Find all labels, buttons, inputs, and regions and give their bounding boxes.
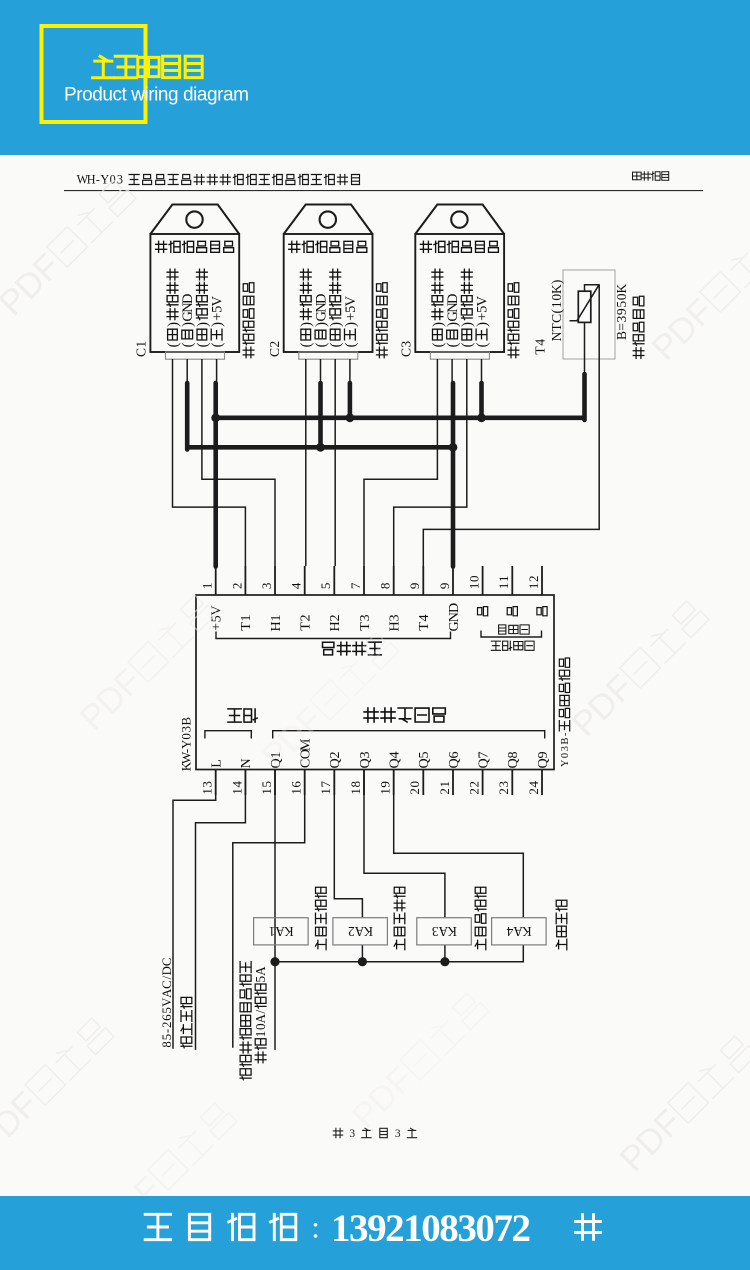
svg-text:1: 1 xyxy=(259,788,274,795)
designator T4 xyxy=(533,339,548,355)
svg-text:2: 2 xyxy=(297,614,313,621)
pin number 14 bottom xyxy=(229,781,244,795)
svg-text:3: 3 xyxy=(560,746,571,751)
junction +5V bus / C2 red xyxy=(346,413,355,422)
wire Q3(18) to KA3 xyxy=(364,770,445,918)
wire T4 lead to terminal 8 xyxy=(423,285,599,566)
svg-text:(: ( xyxy=(328,342,344,347)
terminal tick top 8 (col 7) xyxy=(393,566,395,595)
svg-text:H: H xyxy=(87,173,96,187)
wire Q2(17) to KA2 xyxy=(334,770,362,918)
svg-text:A: A xyxy=(253,1013,268,1023)
svg-text:(: ( xyxy=(210,342,226,347)
bracket 电源 (pins 13-14) xyxy=(205,731,251,739)
junction rail / KA2 xyxy=(358,957,367,966)
svg-text:Product wiring diagram: Product wiring diagram xyxy=(64,85,249,106)
svg-text:8: 8 xyxy=(505,751,521,758)
label 勿接线 (rotated 180) xyxy=(499,625,530,634)
wire Q4(19) to KA4 xyxy=(394,770,524,918)
svg-text:5: 5 xyxy=(318,583,333,590)
svg-text:2: 2 xyxy=(407,788,422,795)
net label 信号输入 (rotated 180) xyxy=(323,642,382,655)
svg-text:1: 1 xyxy=(133,341,148,348)
pin number 21 bottom xyxy=(437,781,452,795)
svg-text:): ) xyxy=(165,322,181,327)
GND bus wire xyxy=(187,445,453,450)
sensor C3 designator xyxy=(398,341,413,357)
svg-text:2: 2 xyxy=(467,788,482,795)
pin number 19 bottom xyxy=(378,781,393,795)
svg-text:2: 2 xyxy=(327,614,343,621)
svg-text:C: C xyxy=(133,348,148,357)
terminal tick bottom 15 xyxy=(274,770,276,796)
thermistor T4 diagonal xyxy=(570,284,600,321)
wire C3 black pin stub xyxy=(451,359,453,384)
terminal label Q5 xyxy=(416,751,432,768)
svg-text:): ) xyxy=(460,322,476,327)
terminal label T4 xyxy=(416,614,432,630)
svg-text:6: 6 xyxy=(446,751,462,758)
wire C3 yellow pin to H3 xyxy=(394,359,467,566)
sensor C2 side label 温湿度传感器 xyxy=(377,283,388,358)
svg-text:1: 1 xyxy=(269,924,276,939)
svg-text:3: 3 xyxy=(357,751,373,758)
sensor C1 side label 温湿度传感器 xyxy=(243,283,254,358)
svg-text:5: 5 xyxy=(160,1007,174,1013)
pin number 23 bottom xyxy=(496,781,511,795)
svg-text:1: 1 xyxy=(549,301,564,308)
terminal label Q7 xyxy=(475,751,491,768)
svg-text:D: D xyxy=(180,293,196,303)
relay KA3 function label 车间三湿度 xyxy=(475,887,486,950)
svg-text:1: 1 xyxy=(289,788,304,795)
terminal tick top 10 (col 10) xyxy=(482,566,484,595)
svg-text:1: 1 xyxy=(318,788,333,795)
wire L(13) to mains xyxy=(173,770,216,1049)
svg-text:2: 2 xyxy=(467,781,482,788)
terminal tick bottom 18 xyxy=(363,770,365,796)
terminal label 空 3 xyxy=(537,607,547,616)
thermistor T4 body xyxy=(578,291,591,322)
svg-text:(: ( xyxy=(299,342,315,347)
sensor C3 side label 温湿度传感器 xyxy=(508,283,519,358)
svg-text:(: ( xyxy=(180,342,196,347)
svg-text:3: 3 xyxy=(349,1128,355,1140)
terminal label Q4 xyxy=(386,751,402,768)
svg-text:H: H xyxy=(268,621,284,631)
sensor C3 pin label black GND xyxy=(445,293,461,347)
terminal tick bottom 19 xyxy=(393,770,395,796)
wire C3 black thick to GND terminal 9 xyxy=(451,383,456,567)
pin number 20 bottom xyxy=(407,781,422,795)
sensor C3 pin label red +5V xyxy=(474,295,490,347)
svg-text:(: ( xyxy=(474,342,490,347)
pin number 3 top xyxy=(259,583,274,590)
value label B=3950K xyxy=(614,283,629,340)
svg-text:1: 1 xyxy=(467,583,482,590)
terminal tick bottom 14 xyxy=(244,770,246,796)
header rule xyxy=(64,190,703,192)
net label 开关量输出 (rotated 180) xyxy=(364,708,445,722)
terminal tick bottom 23 xyxy=(511,770,513,796)
sensor C2 label 温湿度传感器 xyxy=(289,241,367,252)
svg-text:4: 4 xyxy=(229,781,244,788)
junction GND bus / C3 black xyxy=(449,443,458,452)
svg-text:(: ( xyxy=(165,342,181,347)
svg-text:D: D xyxy=(160,966,174,975)
svg-text:N: N xyxy=(549,331,564,341)
svg-text:5: 5 xyxy=(160,1034,174,1040)
svg-text:2: 2 xyxy=(526,788,541,795)
svg-text:6: 6 xyxy=(289,781,304,788)
wire T4 probe thick to +5V bus xyxy=(582,374,587,420)
label 内部使用 (rotated 180) xyxy=(491,641,534,650)
svg-text:7: 7 xyxy=(348,582,363,589)
svg-text:(: ( xyxy=(460,342,476,347)
terminal tick top 2 (col 2) xyxy=(244,566,246,595)
sensor C3 outline xyxy=(415,205,504,360)
pin number 2 top xyxy=(229,583,244,590)
svg-text:-: - xyxy=(160,1029,174,1033)
svg-text:Q: Q xyxy=(535,758,551,768)
terminal label Q3 xyxy=(357,751,373,768)
pin number 1 top xyxy=(200,583,215,590)
relay KA3 xyxy=(417,918,472,945)
svg-text:8: 8 xyxy=(160,1041,174,1047)
svg-text:(: ( xyxy=(549,308,564,313)
svg-text:2: 2 xyxy=(327,751,343,758)
relay KA2 function label 车间二温度 xyxy=(394,887,405,950)
svg-text:Q: Q xyxy=(327,758,343,768)
terminal tick top 7 (col 6) xyxy=(363,566,365,595)
wire COM(16) to contactor supply xyxy=(233,770,305,1048)
terminal label H3 xyxy=(386,614,402,631)
svg-text:2: 2 xyxy=(160,1022,174,1028)
svg-text:1: 1 xyxy=(526,583,541,590)
svg-text:2: 2 xyxy=(267,341,282,348)
svg-text:5: 5 xyxy=(614,301,629,308)
doc header right 科沃电子 xyxy=(633,172,669,181)
terminal label T3 xyxy=(357,614,373,630)
svg-text:D: D xyxy=(313,293,329,303)
svg-text:3: 3 xyxy=(178,726,193,733)
terminal tick top 9 (col 8) xyxy=(422,566,424,595)
pin number 12 top xyxy=(526,576,541,590)
svg-text:(: ( xyxy=(195,342,211,347)
svg-text:4: 4 xyxy=(506,924,513,939)
svg-text:N: N xyxy=(238,758,254,768)
label 85-265VAC/DC xyxy=(160,958,174,1048)
svg-text:2: 2 xyxy=(348,924,355,939)
wire C1 black thick to GND bus xyxy=(185,383,190,450)
svg-text:4: 4 xyxy=(533,339,548,346)
svg-text:): ) xyxy=(210,322,226,327)
svg-text:13921083072: 13921083072 xyxy=(331,1207,531,1250)
svg-text:C: C xyxy=(267,348,282,357)
relay KA2 xyxy=(333,918,388,945)
sensor C1 outline xyxy=(150,205,239,360)
terminal label Q8 xyxy=(505,751,521,768)
terminal tick top 5 (col 5) xyxy=(333,566,335,595)
wire C3 green pin to T3 xyxy=(364,359,437,566)
relay KA4 xyxy=(492,918,546,945)
terminal tick bottom 16 xyxy=(304,770,306,796)
pin number 9 top xyxy=(437,583,452,590)
wire T4 bottom lead stub xyxy=(584,322,586,374)
svg-text:4: 4 xyxy=(386,751,402,758)
service name 陈 xyxy=(576,1215,601,1240)
pin number 7 top xyxy=(348,582,363,589)
label 交流10A/直流5A xyxy=(253,966,268,1063)
svg-text:9: 9 xyxy=(378,781,393,788)
junction +5V bus / terminal 1 riser xyxy=(211,413,220,422)
svg-text:3: 3 xyxy=(259,583,274,590)
terminal tick bottom 21 xyxy=(452,770,454,796)
svg-text:1: 1 xyxy=(253,1031,268,1038)
terminal label 空 1 xyxy=(478,607,488,616)
sensor C3 pin label green temp-out xyxy=(430,269,446,347)
wire C2 black pin stub xyxy=(320,359,322,384)
wire C2 black thick to GND bus xyxy=(318,383,323,447)
svg-text:3: 3 xyxy=(357,614,373,621)
terminal label T2 xyxy=(297,614,313,630)
wire C2 yellow pin to H2 xyxy=(334,359,336,566)
svg-text:8: 8 xyxy=(378,583,393,590)
svg-text:Q: Q xyxy=(446,758,462,768)
svg-text:): ) xyxy=(343,322,359,327)
svg-text:7: 7 xyxy=(475,751,491,758)
title 产品接线图 (yellow) xyxy=(93,56,203,77)
svg-text:0: 0 xyxy=(560,753,571,758)
terminal tick top 11 (col 11) xyxy=(511,566,513,595)
bracket 空 pins 10-12 xyxy=(481,631,542,638)
svg-text:K: K xyxy=(614,283,629,293)
bracket 信号输入 (pins 1-9) xyxy=(216,632,451,639)
svg-text:Y: Y xyxy=(100,173,109,187)
sensor C2 outline xyxy=(284,205,373,360)
terminal label H1 xyxy=(268,614,284,631)
svg-text:1: 1 xyxy=(437,781,452,788)
svg-text:+: + xyxy=(474,313,490,321)
label 湿度温度接触器电源 xyxy=(240,962,251,1080)
pin number 5 top xyxy=(318,583,333,590)
svg-text:3: 3 xyxy=(386,614,402,621)
svg-text:V: V xyxy=(474,295,490,306)
svg-text:1: 1 xyxy=(378,788,393,795)
svg-text:2: 2 xyxy=(526,576,541,583)
thermistor T4 top lead wire xyxy=(585,285,600,292)
svg-text:1: 1 xyxy=(496,583,511,590)
svg-text:C: C xyxy=(160,958,174,967)
terminal label 空 2 xyxy=(507,607,517,616)
svg-text:3: 3 xyxy=(496,781,511,788)
svg-text:1: 1 xyxy=(268,614,284,621)
svg-text:0: 0 xyxy=(467,576,482,583)
svg-text:6: 6 xyxy=(160,1014,174,1021)
svg-text:T: T xyxy=(416,622,432,631)
svg-text:Q: Q xyxy=(475,758,491,768)
svg-text:1: 1 xyxy=(229,788,244,795)
wire C2 red thick to +5V bus xyxy=(348,383,353,418)
svg-text:0: 0 xyxy=(407,781,422,788)
wire C1 black pin stub xyxy=(186,359,188,384)
svg-text:/: / xyxy=(253,1010,268,1014)
svg-text:0: 0 xyxy=(178,733,193,740)
svg-text:Q: Q xyxy=(505,758,521,768)
svg-text:D: D xyxy=(445,293,461,303)
terminal tick top 12 (col 12) xyxy=(541,566,543,595)
wire Q1(15) through KA1 to bottom xyxy=(274,770,276,1050)
svg-text:): ) xyxy=(474,322,490,327)
wire C1 yellow pin to H1 xyxy=(202,359,275,566)
sensor C2 pin label yellow hum-out xyxy=(328,269,344,347)
svg-text:T: T xyxy=(297,622,313,631)
label 系统供电 xyxy=(181,997,192,1047)
svg-text:T: T xyxy=(238,622,254,631)
pin number 17 bottom xyxy=(318,781,333,795)
terminal tick top 9 (col 9) xyxy=(452,566,454,595)
sensor C1 pin label yellow hum-out xyxy=(195,269,211,347)
terminal label H2 xyxy=(327,614,343,631)
terminal label T1 xyxy=(238,614,254,630)
sensor C2 pin label black GND xyxy=(313,293,329,347)
pin number 11 top xyxy=(496,576,511,590)
sensor C2 pin label red +5V xyxy=(343,295,359,347)
yellow frame xyxy=(42,26,146,122)
svg-text:-: - xyxy=(560,732,571,736)
svg-text:H: H xyxy=(386,621,402,631)
pin number 24 bottom xyxy=(526,781,541,795)
svg-text:L: L xyxy=(208,759,224,768)
svg-text:B: B xyxy=(614,331,629,340)
svg-text:(: ( xyxy=(343,342,359,347)
svg-text:): ) xyxy=(549,280,564,285)
pin number 9 top xyxy=(407,583,422,590)
svg-text:C: C xyxy=(160,980,174,989)
svg-text:5: 5 xyxy=(416,751,432,758)
terminal label Q9 xyxy=(535,751,551,768)
sensor C1 pin label green temp-out xyxy=(165,269,181,347)
terminal label Q1 xyxy=(268,751,284,768)
svg-text:9: 9 xyxy=(407,583,422,590)
svg-text:3: 3 xyxy=(614,315,629,322)
wire KA2 coil to rail xyxy=(361,945,363,962)
terminal tick bottom 13 xyxy=(215,770,217,796)
svg-text:1: 1 xyxy=(496,576,511,583)
svg-text:1: 1 xyxy=(200,583,215,590)
pin number 16 bottom xyxy=(289,781,304,795)
svg-text:+: + xyxy=(210,313,226,321)
terminal label Q6 xyxy=(446,751,462,768)
wire N(14) to mains xyxy=(196,770,246,1050)
junction GND bus / C2 black xyxy=(316,443,325,452)
bracket 开关量输出 (pins 15-24) xyxy=(273,731,545,739)
svg-text:2: 2 xyxy=(496,788,511,795)
svg-text:4: 4 xyxy=(289,582,304,589)
wire C1 red thick to +5V bus and terminal 1 xyxy=(213,383,218,567)
svg-text:): ) xyxy=(430,322,446,327)
svg-text:7: 7 xyxy=(318,781,333,788)
svg-text:-: - xyxy=(96,173,100,187)
svg-text:(: ( xyxy=(313,342,329,347)
bottom blue banner xyxy=(0,1196,750,1270)
svg-text:4: 4 xyxy=(526,781,541,788)
svg-text:): ) xyxy=(328,322,344,327)
junction rail / Q1 riser xyxy=(270,957,279,966)
svg-text:): ) xyxy=(195,322,211,327)
svg-text:0: 0 xyxy=(110,173,116,187)
wire C2 green pin to T2 xyxy=(305,359,307,566)
svg-text:Q: Q xyxy=(357,758,373,768)
terminal tick bottom 17 xyxy=(333,770,335,796)
svg-text:(: ( xyxy=(430,342,446,347)
top blue banner xyxy=(0,0,750,155)
pin number 4 top xyxy=(289,582,304,589)
svg-text:9: 9 xyxy=(535,751,551,758)
pin number 18 bottom xyxy=(348,781,363,795)
terminal tick bottom 20 xyxy=(422,770,424,796)
svg-text:B: B xyxy=(560,737,571,744)
svg-text:2: 2 xyxy=(437,788,452,795)
svg-text:V: V xyxy=(343,295,359,306)
sensor C2 designator xyxy=(267,341,282,357)
svg-text:Q: Q xyxy=(416,758,432,768)
svg-text:5: 5 xyxy=(259,781,274,788)
svg-text::: : xyxy=(311,1210,320,1245)
sensor C2 pin label green temp-out xyxy=(299,269,315,347)
sensor C3 pin label yellow hum-out xyxy=(460,269,476,347)
svg-text:3: 3 xyxy=(398,341,413,348)
svg-text:Q: Q xyxy=(386,758,402,768)
pin number 8 top xyxy=(378,583,393,590)
designator KW-Y03B xyxy=(178,717,193,772)
net label 电源 (rotated 180) xyxy=(228,709,257,722)
service label 服务电话： xyxy=(145,1210,320,1245)
relay KA1 function label 车间一湿度 xyxy=(316,887,327,950)
pin number 10 top xyxy=(467,576,482,590)
controller terminal block outline xyxy=(196,595,554,770)
terminal tick top 3 (col 3) xyxy=(274,566,276,595)
relay common rail wire xyxy=(274,945,523,962)
svg-text:(: ( xyxy=(445,342,461,347)
svg-text:): ) xyxy=(299,322,315,327)
svg-text:9: 9 xyxy=(437,583,452,590)
label 温度传感器 xyxy=(633,296,644,358)
terminal tick top 1 (col 1) xyxy=(215,566,217,595)
svg-text:+: + xyxy=(208,623,224,631)
pin number 13 bottom xyxy=(200,781,215,795)
svg-text:B: B xyxy=(178,717,193,726)
value label NTC(10K) xyxy=(549,280,564,342)
terminal label Q2 xyxy=(327,751,343,768)
svg-text:H: H xyxy=(327,621,343,631)
wire C1 green pin to T1 xyxy=(173,359,246,566)
junction rail / KA3 xyxy=(440,957,449,966)
sensor C1 pin label red +5V xyxy=(210,295,226,347)
wire C3 red pin stub xyxy=(481,359,483,384)
svg-text:1: 1 xyxy=(238,614,254,621)
terminal tick bottom 24 xyxy=(541,770,543,796)
page number 第 3 页 共 3 页 xyxy=(333,1128,416,1140)
svg-text:1: 1 xyxy=(348,788,363,795)
svg-text:3: 3 xyxy=(431,924,438,939)
terminal tick bottom 22 xyxy=(482,770,484,796)
svg-text:9: 9 xyxy=(614,308,629,315)
relay KA4 function label 水箱控制 xyxy=(556,900,567,950)
wire C1 red pin stub xyxy=(216,359,218,384)
svg-text:3: 3 xyxy=(395,1128,401,1140)
svg-text:V: V xyxy=(210,295,226,306)
